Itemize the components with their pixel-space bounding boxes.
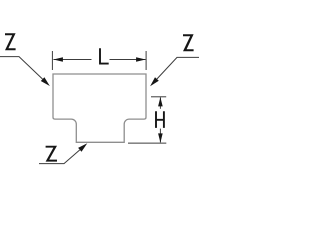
leader line top-right Z [157,57,199,79]
label Z top-left [5,33,16,50]
leader arrow top-right [150,77,159,86]
L dimension arrow right [136,57,146,62]
leader line bottom Z [39,150,80,164]
L dimension line left segment [53,59,91,61]
leader arrow top-left [41,77,50,86]
H dimension arrow down [158,133,163,142]
L dimension arrow left [53,57,63,62]
L extension line left [51,51,53,70]
L dimension line right segment [110,59,146,61]
label Z bottom [46,146,57,162]
H extension line top [151,96,166,98]
leader line top-left Z [0,57,43,80]
label L [100,48,109,63]
label H [156,111,164,128]
H extension line bottom [128,142,166,144]
H dimension arrow up [158,97,163,106]
label Z top-right [183,34,194,51]
leader arrow bottom [78,143,87,152]
H dimension line lower segment [159,129,161,143]
L extension line right [145,51,147,70]
H dimension line upper segment [159,97,161,109]
tee fitting body outline [53,74,146,142]
